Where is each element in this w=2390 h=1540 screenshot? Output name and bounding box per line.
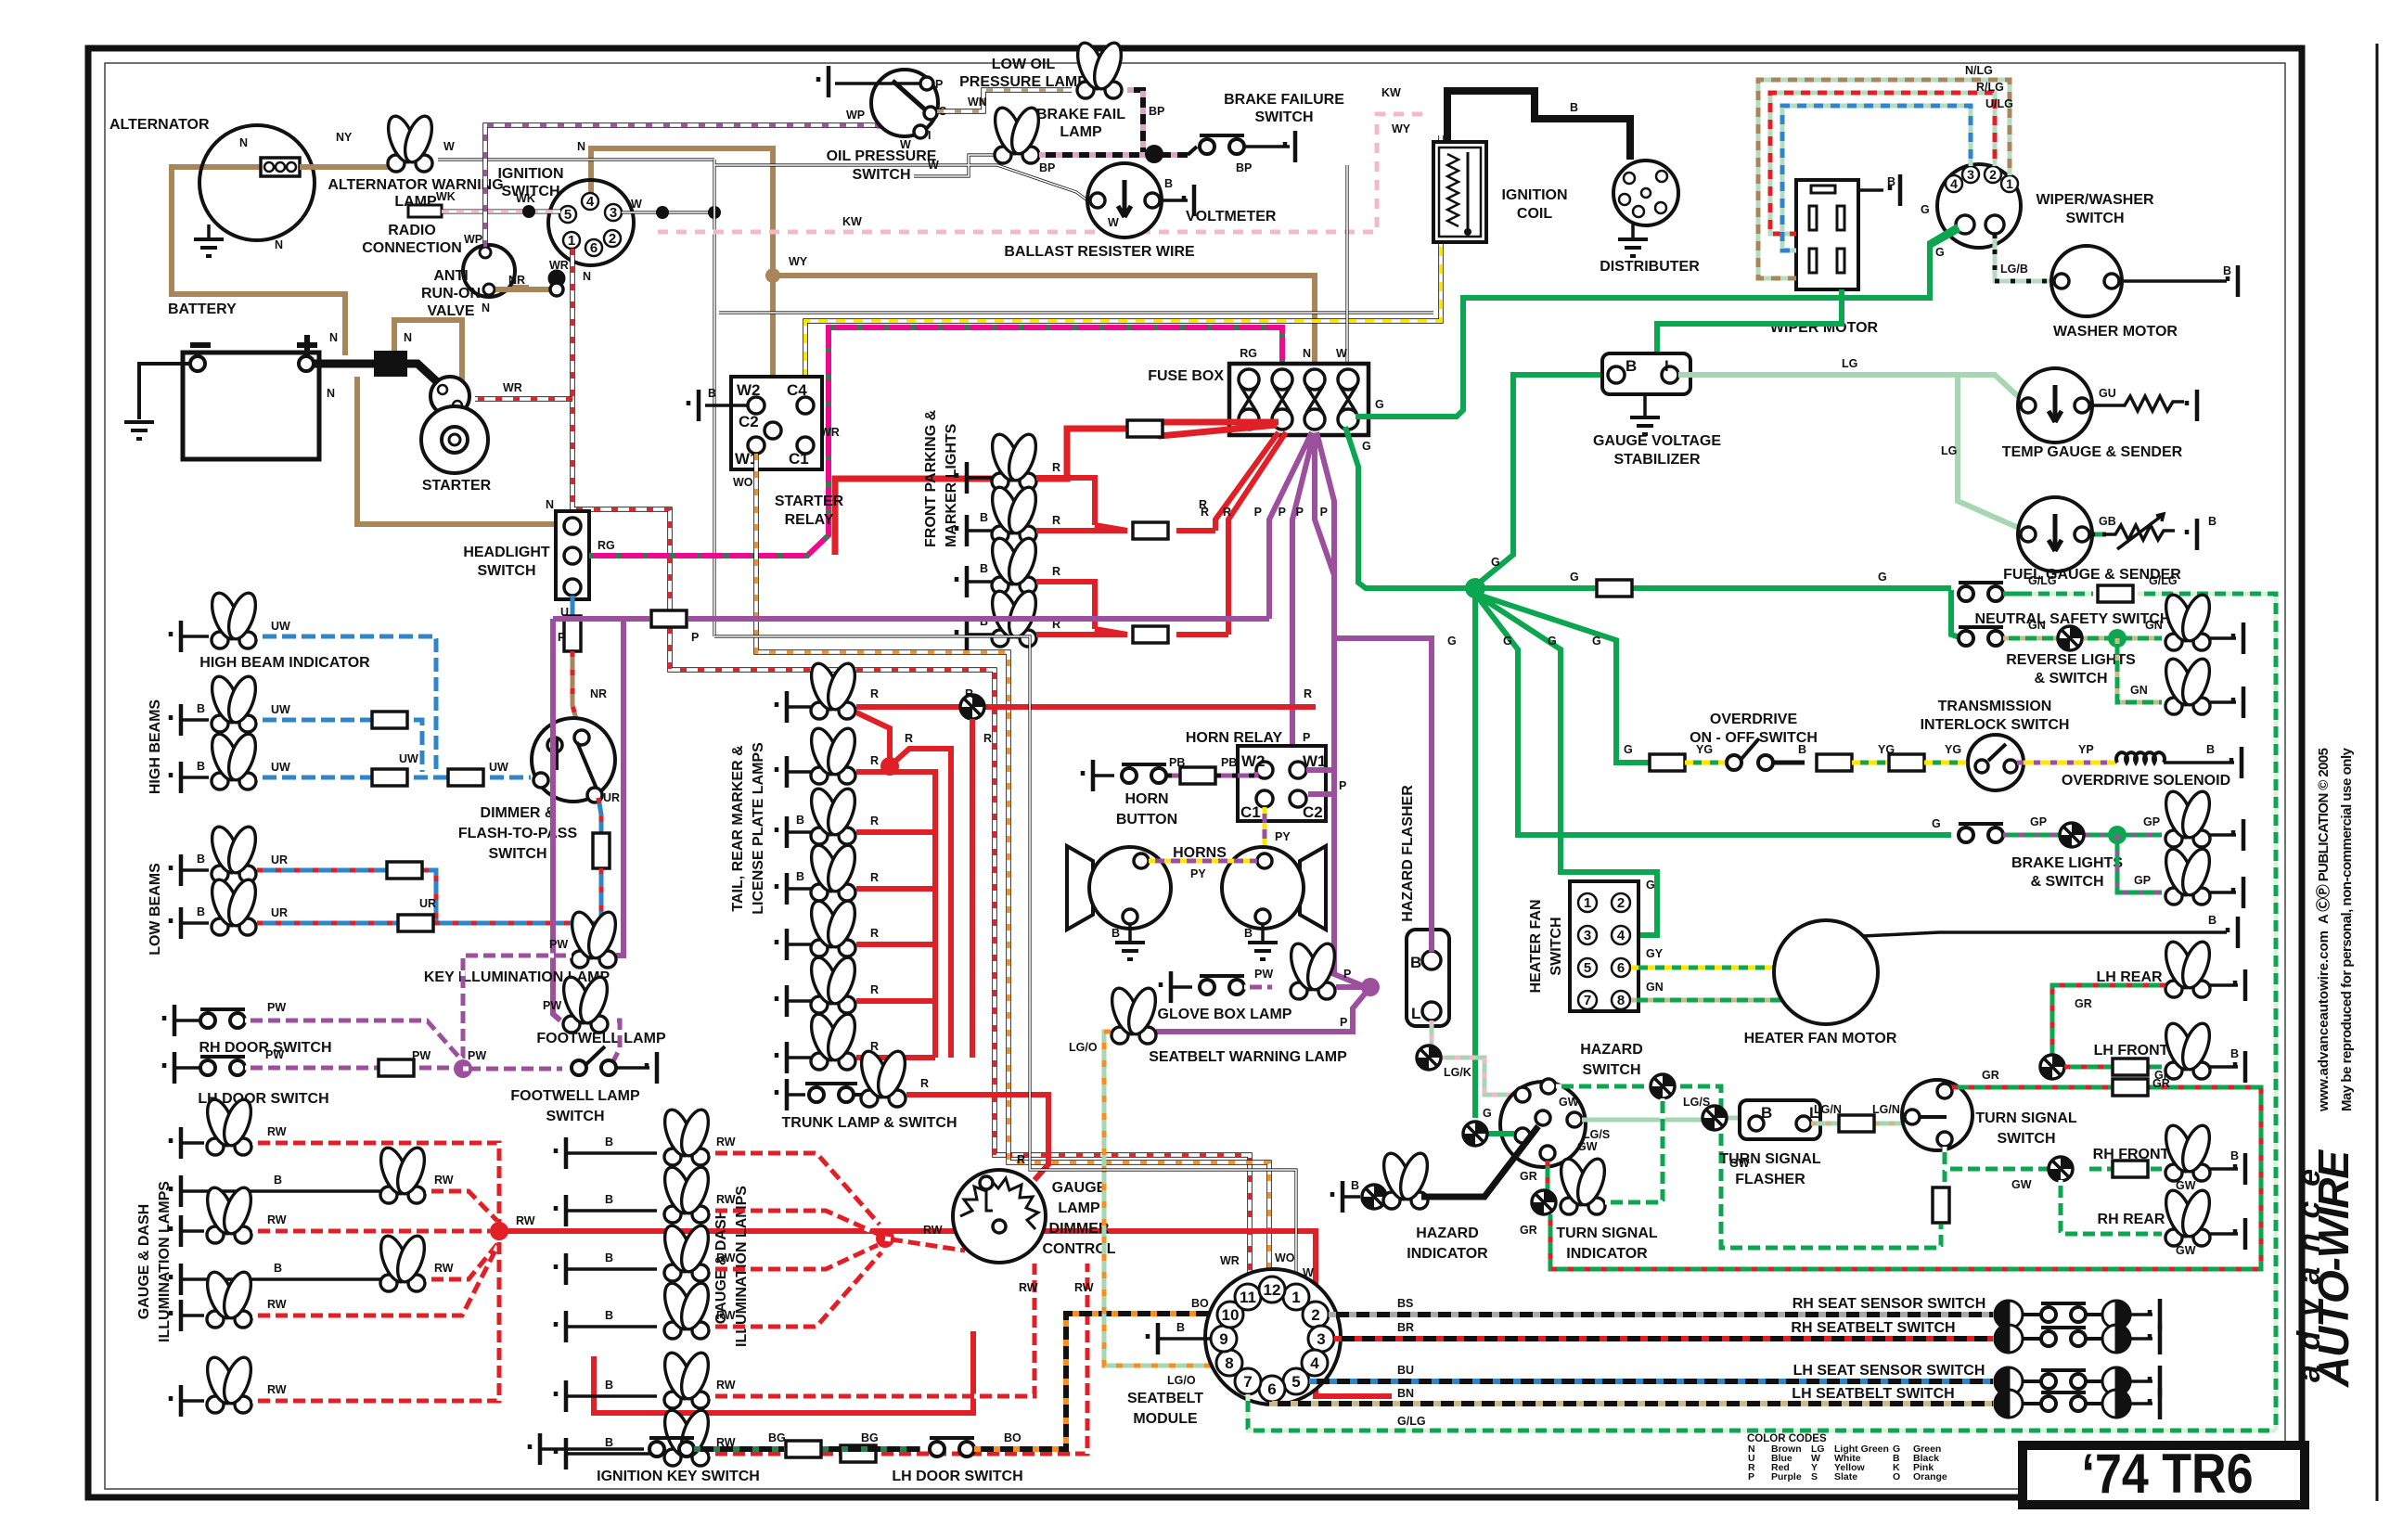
wire P bus horizontal	[553, 616, 1269, 622]
svg-text:B: B	[980, 562, 988, 575]
LH door switch	[164, 1052, 174, 1084]
svg-text:1: 1	[2006, 176, 2013, 191]
wire P left vertical to footwell lamp	[553, 619, 560, 1020]
svg-text:6: 6	[590, 240, 597, 256]
svg-text:Slate: Slate	[1834, 1471, 1857, 1482]
svg-text:SEATBELT: SEATBELT	[1127, 1391, 1203, 1406]
svg-text:HIGH BEAM INDICATOR: HIGH BEAM INDICATOR	[199, 655, 370, 671]
svg-text:R: R	[1017, 1153, 1025, 1166]
svg-text:BALLAST RESISTER WIRE: BALLAST RESISTER WIRE	[1004, 244, 1195, 260]
wire LG/S hazard E pin	[1582, 1118, 1748, 1120]
left gauge lamp 5	[171, 1300, 181, 1331]
high beam lamp 3	[171, 762, 181, 793]
svg-text:TRANSMISSION: TRANSMISSION	[1938, 699, 2052, 714]
ignition switch SW1	[548, 180, 634, 265]
wire R row1 long	[856, 704, 1316, 710]
wire PW key lamp to junction	[463, 956, 572, 1061]
wire R into dimmer control	[1034, 1098, 1048, 1180]
neutral safety switch	[1959, 583, 2003, 601]
svg-text:GAUGE & DASH: GAUGE & DASH	[136, 1204, 152, 1319]
svg-text:LG/B: LG/B	[2000, 263, 2028, 276]
svg-text:WO: WO	[1275, 1251, 1295, 1264]
wire NY to warning lamp	[300, 164, 390, 170]
svg-text:GLOVE BOX LAMP: GLOVE BOX LAMP	[1158, 1007, 1292, 1022]
RH door switch	[164, 1005, 174, 1036]
svg-text:R: R	[1052, 565, 1060, 578]
svg-text:ALTERNATOR: ALTERNATOR	[109, 117, 210, 133]
svg-text:KW: KW	[1381, 86, 1401, 99]
svg-text:PW: PW	[543, 999, 561, 1012]
wire G junction down fan	[1475, 588, 1951, 1118]
svg-text:WR: WR	[549, 259, 569, 272]
svg-text:LG/O: LG/O	[1069, 1041, 1098, 1054]
svg-text:PW: PW	[1254, 968, 1273, 981]
wire BP from low oil lamp down	[1127, 90, 1143, 152]
wire BN row	[1272, 1402, 1993, 1404]
svg-text:R: R	[870, 815, 879, 828]
svg-text:P: P	[1748, 1471, 1754, 1482]
svg-text:N: N	[329, 331, 338, 344]
purple junction node glove	[1361, 978, 1380, 996]
wire R spine from junction	[499, 1231, 1392, 1396]
svg-text:PB: PB	[1169, 756, 1185, 769]
svg-text:UW: UW	[271, 761, 290, 774]
svg-text:3: 3	[1584, 928, 1591, 943]
wire GY to heater motor	[1631, 966, 1775, 970]
fuel gauge	[2018, 497, 2092, 571]
svg-text:STARTER: STARTER	[422, 478, 492, 494]
wiper/washer switch	[1937, 164, 2021, 248]
svg-text:4: 4	[1310, 1354, 1319, 1372]
svg-text:LH SEAT SENSOR SWITCH: LH SEAT SENSOR SWITCH	[1793, 1363, 1985, 1379]
svg-text:RUN-ON: RUN-ON	[421, 286, 481, 302]
wire W from warning lamp	[438, 158, 714, 160]
trunk lamp & switch	[777, 1079, 787, 1110]
svg-text:BO: BO	[1191, 1297, 1209, 1310]
center gauge lamp 1	[556, 1137, 566, 1169]
svg-text:5: 5	[564, 207, 572, 223]
svg-text:UW: UW	[399, 752, 418, 765]
svg-text:WP: WP	[464, 233, 482, 246]
wire RG magenta headlight switch to fuse box	[589, 327, 1282, 556]
svg-text:RW: RW	[267, 1125, 287, 1138]
svg-text:HEATER FAN: HEATER FAN	[1528, 899, 1544, 993]
svg-text:C2: C2	[739, 413, 759, 430]
svg-text:RADIO: RADIO	[388, 223, 436, 238]
alternator AL1	[199, 125, 315, 240]
svg-text:G: G	[1624, 743, 1633, 756]
svg-text:FLASHER: FLASHER	[1735, 1172, 1805, 1187]
parking lamp 1	[957, 462, 967, 494]
svg-text:B: B	[1164, 177, 1173, 190]
svg-text:TAIL, REAR MARKER &: TAIL, REAR MARKER &	[730, 745, 746, 912]
svg-text:NR: NR	[508, 274, 525, 287]
svg-text:B: B	[1761, 1104, 1772, 1122]
distributor	[1613, 160, 1678, 225]
wire N brown to fuse box	[773, 276, 1315, 362]
svg-text:SWITCH: SWITCH	[1997, 1131, 2055, 1147]
svg-text:B: B	[605, 1251, 613, 1264]
svg-text:FOOTWELL LAMP: FOOTWELL LAMP	[510, 1088, 640, 1104]
fuse box	[1229, 364, 1368, 435]
svg-text:SEATBELT WARNING LAMP: SEATBELT WARNING LAMP	[1149, 1049, 1347, 1065]
svg-text:C1: C1	[1240, 803, 1261, 821]
svg-text:1: 1	[568, 233, 575, 249]
svg-text:UR: UR	[271, 853, 288, 866]
svg-text:B: B	[1625, 357, 1637, 375]
wire U blue from headlight switch + NR to dimmer	[571, 596, 575, 616]
coil black wires to distributor	[1447, 91, 1630, 160]
svg-text:BRAKE FAIL: BRAKE FAIL	[1036, 107, 1125, 122]
wire P into hazard flasher	[1334, 520, 1432, 952]
svg-text:IGNITION KEY SWITCH: IGNITION KEY SWITCH	[597, 1469, 760, 1484]
svg-text:GB: GB	[2099, 515, 2116, 528]
svg-text:RW: RW	[434, 1262, 454, 1275]
wiper motor box	[1796, 180, 1858, 289]
center gauge lamp 5	[556, 1380, 566, 1412]
svg-text:W: W	[631, 198, 642, 211]
svg-text:B: B	[796, 870, 804, 883]
svg-text:BG: BG	[768, 1431, 786, 1444]
wire WK pink dashes	[442, 210, 560, 214]
svg-text:PY: PY	[1190, 867, 1206, 880]
svg-text:9: 9	[1219, 1330, 1227, 1348]
wire W white to fuse box	[1345, 165, 1348, 364]
svg-text:B: B	[1176, 1321, 1185, 1334]
svg-text:B: B	[1410, 954, 1421, 971]
license plate lamp 1	[777, 929, 787, 960]
svg-text:W: W	[443, 140, 455, 153]
svg-text:2: 2	[1989, 167, 1997, 182]
svg-text:WK: WK	[516, 192, 535, 205]
starter relay box	[731, 377, 822, 469]
svg-text:CONNECTION: CONNECTION	[362, 240, 462, 256]
svg-text:N: N	[239, 136, 248, 149]
svg-text:WN: WN	[968, 96, 987, 109]
svg-text:R: R	[1052, 514, 1060, 527]
center gauge lamp 2	[556, 1195, 566, 1226]
wire GW hazard N pin	[1556, 1086, 1941, 1248]
svg-text:FRONT PARKING &: FRONT PARKING &	[923, 409, 939, 547]
tail lamp 2	[777, 756, 787, 788]
svg-text:UW: UW	[271, 703, 290, 716]
svg-text:Orange: Orange	[1913, 1471, 1947, 1482]
svg-text:RW: RW	[716, 1136, 736, 1149]
wire LG/O seatbelt warning	[1104, 1032, 1215, 1366]
svg-text:B: B	[197, 760, 205, 773]
svg-text:HORNS: HORNS	[1173, 845, 1227, 861]
parking lamp 3	[957, 566, 967, 597]
svg-text:RW: RW	[267, 1383, 287, 1396]
license plate lamp 2	[777, 985, 787, 1017]
svg-text:PB: PB	[1221, 756, 1237, 769]
svg-text:LG/N: LG/N	[1814, 1103, 1842, 1116]
red junction node	[490, 1222, 508, 1240]
wire PY between horns	[1149, 859, 1257, 864]
svg-text:4: 4	[586, 194, 595, 210]
svg-text:2: 2	[609, 231, 616, 247]
svg-text:3: 3	[1967, 167, 1974, 182]
svg-text:RW: RW	[434, 1174, 454, 1187]
svg-text:WR: WR	[1220, 1254, 1240, 1267]
wire LG/K	[1432, 1020, 1516, 1095]
svg-text:ILLUMINATION LAMPS: ILLUMINATION LAMPS	[157, 1181, 173, 1342]
svg-text:6: 6	[1617, 960, 1625, 976]
svg-text:R: R	[905, 732, 913, 745]
wire P hook W1-C2	[1306, 770, 1334, 794]
svg-text:R: R	[1223, 506, 1231, 519]
center gauge lamp 6	[556, 1438, 566, 1469]
svg-text:BP: BP	[1149, 105, 1164, 118]
svg-text:BUTTON: BUTTON	[1116, 812, 1177, 828]
svg-text:GW: GW	[1577, 1140, 1598, 1153]
svg-text:N: N	[275, 238, 283, 251]
wire N brown ignition switch to starter relay C2	[591, 148, 773, 422]
svg-text:GR: GR	[2152, 1077, 2170, 1090]
wire BO	[974, 1314, 1216, 1449]
svg-text:LH SEATBELT SWITCH: LH SEATBELT SWITCH	[1792, 1386, 1954, 1402]
svg-text:LOW BEAMS: LOW BEAMS	[148, 863, 163, 956]
wire W net top center	[714, 155, 1087, 636]
svg-text:TEMP GAUGE & SENDER: TEMP GAUGE & SENDER	[2002, 444, 2183, 460]
svg-text:I: I	[1664, 357, 1669, 375]
svg-text:NEUTRAL SAFETY SWITCH: NEUTRAL SAFETY SWITCH	[1975, 611, 2171, 627]
svg-text:G: G	[1878, 571, 1887, 584]
wire WN tan dashed	[937, 90, 1072, 111]
svg-text:RELAY: RELAY	[785, 512, 834, 528]
svg-text:TURN SIGNAL: TURN SIGNAL	[1719, 1151, 1821, 1167]
svg-text:S: S	[1811, 1471, 1818, 1482]
left gauge lamp 2	[171, 1175, 181, 1207]
wire GN to heater motor	[1631, 998, 1781, 1003]
ground at W2	[705, 404, 748, 407]
svg-text:R: R	[920, 1077, 929, 1090]
svg-text:STABILIZER: STABILIZER	[1613, 452, 1700, 468]
svg-text:N/LG: N/LG	[1965, 64, 1993, 77]
svg-text:N: N	[482, 302, 490, 314]
svg-text:GR: GR	[2075, 997, 2092, 1010]
svg-text:WR: WR	[503, 381, 522, 394]
svg-text:R: R	[983, 732, 992, 745]
parking lamp 2	[957, 515, 967, 546]
svg-text:R: R	[1201, 506, 1209, 519]
gauge lamp dimmer control	[953, 1170, 1046, 1263]
svg-text:P: P	[1339, 779, 1346, 792]
svg-text:BP: BP	[1236, 161, 1252, 174]
svg-text:G: G	[1592, 635, 1601, 648]
svg-text:GW: GW	[2176, 1179, 2196, 1192]
svg-text:B: B	[1351, 1179, 1359, 1192]
svg-text:WO: WO	[733, 476, 753, 489]
svg-text:INDICATOR: INDICATOR	[1407, 1246, 1488, 1262]
wire N brown battery junction to headlight switch	[357, 377, 554, 524]
svg-text:2: 2	[1617, 895, 1625, 911]
wire W ignition pin3	[622, 211, 714, 213]
svg-text:UR: UR	[419, 897, 436, 910]
wire PW junction to footwell switch	[463, 1067, 562, 1072]
svg-text:DISTRIBUTER: DISTRIBUTER	[1600, 259, 1700, 275]
rear marker lamp 2	[777, 873, 787, 905]
svg-text:B: B	[274, 1174, 282, 1187]
wire N/LG loop	[1758, 80, 2010, 278]
svg-text:8: 8	[1617, 993, 1625, 1008]
wire P right vertical to key illumination	[616, 619, 623, 956]
svg-text:RW: RW	[1074, 1281, 1094, 1294]
svg-text:B: B	[605, 1193, 613, 1206]
svg-text:GN: GN	[2130, 684, 2148, 697]
svg-text:B: B	[2206, 743, 2215, 756]
svg-text:B: B	[2230, 1149, 2239, 1162]
svg-text:O: O	[1893, 1471, 1900, 1482]
svg-text:ALTERNATOR WARNING: ALTERNATOR WARNING	[328, 177, 503, 193]
horn button	[1083, 760, 1093, 791]
svg-text:GP: GP	[2134, 874, 2151, 887]
center gauge lamp 3	[556, 1253, 566, 1285]
svg-text:G: G	[1375, 398, 1384, 411]
svg-text:Purple: Purple	[1771, 1471, 1802, 1482]
svg-text:P: P	[1320, 506, 1328, 519]
svg-text:FLASH-TO-PASS: FLASH-TO-PASS	[458, 826, 578, 841]
svg-text:C2: C2	[1303, 803, 1323, 821]
svg-text:BR: BR	[1397, 1321, 1414, 1334]
wire LG branch to fuel gauge	[1958, 375, 2021, 529]
svg-text:BATTERY: BATTERY	[168, 302, 237, 317]
svg-text:B: B	[605, 1379, 613, 1392]
svg-text:HIGH BEAMS: HIGH BEAMS	[148, 699, 163, 795]
svg-text:1: 1	[1584, 895, 1591, 911]
wire PY C1 to horns	[1263, 807, 1267, 855]
svg-text:HEADLIGHT: HEADLIGHT	[463, 545, 550, 560]
cable junction block	[374, 351, 407, 377]
wire WR branch to starter solenoid	[475, 396, 572, 402]
wire GR loop	[1550, 1087, 2261, 1269]
svg-text:7: 7	[1243, 1373, 1252, 1391]
svg-text:BU: BU	[1397, 1364, 1414, 1377]
wire UW indicator	[257, 636, 436, 772]
svg-text:WP: WP	[846, 109, 865, 122]
svg-text:GY: GY	[1646, 947, 1664, 960]
reverse lights row2	[2117, 638, 2162, 702]
svg-text:GP: GP	[2030, 815, 2047, 828]
wire G fuse to wiper run	[1356, 229, 1960, 417]
svg-text:U/LG: U/LG	[1985, 97, 2013, 110]
svg-text:LG/S: LG/S	[1683, 1096, 1710, 1109]
svg-text:5: 5	[1584, 960, 1591, 976]
svg-text:LG: LG	[1842, 357, 1857, 370]
wire YP to solenoid	[2017, 761, 2117, 765]
svg-text:YG: YG	[1696, 743, 1713, 756]
sidebar rule	[2376, 44, 2379, 1501]
ground below alternator	[207, 225, 211, 239]
svg-text:VOLTMETER: VOLTMETER	[1186, 209, 1277, 225]
svg-text:YG: YG	[1945, 743, 1961, 756]
svg-text:RW: RW	[267, 1298, 287, 1311]
hazard indicator	[1332, 1181, 1343, 1213]
svg-text:DIMMER: DIMMER	[1049, 1221, 1110, 1237]
svg-text:N: N	[583, 270, 591, 283]
svg-text:G: G	[1570, 571, 1579, 584]
sidebar rotated text	[2292, 747, 2358, 1388]
svg-text:N: N	[404, 331, 412, 344]
purple junction node	[454, 1059, 472, 1078]
svg-text:PW: PW	[267, 1001, 286, 1014]
svg-text:GR: GR	[1520, 1224, 1537, 1237]
svg-text:A ⒸⓅ PUBLICATION © 2005: A ⒸⓅ PUBLICATION © 2005	[2315, 748, 2332, 924]
svg-text:G/LG: G/LG	[1397, 1415, 1426, 1428]
turn signal indicator	[1532, 1190, 1556, 1214]
wire P fan from fuse3	[1269, 432, 1370, 989]
wire R bottom loop	[594, 1331, 973, 1413]
wire G stabilizer to junction	[1477, 375, 1611, 584]
svg-text:G: G	[1491, 556, 1500, 569]
dimmer & flash-to-pass switch	[532, 718, 615, 802]
red junction node 2	[876, 1229, 894, 1248]
svg-text:COIL: COIL	[1517, 206, 1552, 222]
svg-text:P: P	[1340, 1016, 1347, 1029]
low beam lamp 2	[171, 907, 181, 939]
svg-text:B: B	[197, 702, 205, 715]
svg-text:GAUGE: GAUGE	[1052, 1180, 1107, 1196]
wire LG/B washer	[1995, 234, 2052, 281]
svg-text:TURN SIGNAL: TURN SIGNAL	[1975, 1110, 2077, 1126]
svg-text:4: 4	[1617, 928, 1625, 943]
svg-text:UW: UW	[271, 620, 290, 633]
svg-text:7: 7	[1584, 993, 1591, 1008]
svg-text:HAZARD: HAZARD	[1416, 1226, 1479, 1241]
battery BT1	[183, 353, 319, 459]
svg-text:RW: RW	[716, 1251, 736, 1264]
svg-text:SWITCH: SWITCH	[546, 1109, 604, 1124]
svg-text:LH FRONT: LH FRONT	[2094, 1043, 2169, 1059]
wire GW TS switch down	[1943, 1147, 1947, 1187]
svg-text:LH DOOR SWITCH: LH DOOR SWITCH	[892, 1469, 1022, 1484]
title box '74 TR6	[2023, 1443, 2305, 1505]
wire LG/N flasher to TS switch	[1811, 1122, 1904, 1126]
wire N brown alternator to battery junction	[172, 167, 345, 355]
svg-text:W2: W2	[1241, 752, 1266, 770]
high beam indicator	[171, 621, 181, 652]
wire G wiper switch	[1930, 226, 1958, 269]
wire WP purple dashed up from valve	[485, 125, 905, 247]
svg-text:L: L	[1411, 1005, 1420, 1022]
rear marker lamp 1	[777, 816, 787, 848]
svg-text:4: 4	[1950, 176, 1958, 191]
svg-text:& SWITCH: & SWITCH	[2030, 874, 2103, 890]
anti run-on valve	[463, 245, 515, 297]
svg-text:R: R	[870, 687, 879, 700]
wire WR red-white dashed ignition pin1 down and to module	[572, 249, 1250, 1288]
turn signal flasher	[1740, 1100, 1820, 1139]
svg-text:KW: KW	[842, 215, 862, 228]
parking lamp rows	[957, 430, 1228, 650]
oil pressure switch	[871, 70, 938, 136]
wire W white into pin 1	[714, 636, 1296, 1286]
svg-text:WY: WY	[1392, 122, 1411, 135]
svg-text:BS: BS	[1397, 1297, 1413, 1310]
horn 1	[1067, 846, 1093, 930]
svg-text:P: P	[1343, 968, 1351, 981]
svg-text:RW: RW	[716, 1379, 736, 1392]
wire LG to temp gauge	[1678, 375, 2021, 399]
transmission interlock switch	[1968, 735, 2024, 790]
svg-text:3: 3	[1317, 1330, 1325, 1348]
svg-text:B: B	[605, 1309, 613, 1322]
svg-text:LH REAR: LH REAR	[2096, 969, 2163, 985]
svg-text:PW: PW	[468, 1049, 486, 1062]
svg-text:BO: BO	[1004, 1431, 1022, 1444]
svg-text:NY: NY	[336, 131, 353, 144]
wire KW pink dashed	[649, 114, 1425, 232]
